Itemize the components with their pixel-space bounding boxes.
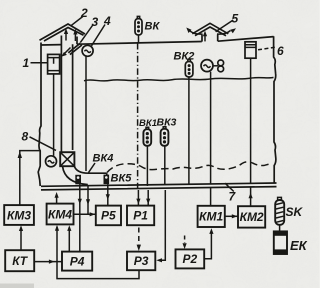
- curl arrow left: [189, 30, 202, 34]
- sensor BK4: [75, 175, 81, 185]
- damper 3: [68, 43, 82, 54]
- KT to P4: [34, 261, 62, 263]
- BK5 wire to P5: [107, 184, 109, 206]
- centerline to P1: [137, 190, 139, 206]
- svg-text:Р3: Р3: [134, 254, 149, 268]
- exhaust fan motor: [201, 60, 213, 72]
- ceiling: [41, 37, 274, 45]
- wall left: [38, 43, 41, 187]
- sensor BK5: [104, 175, 110, 185]
- roof 5: [192, 23, 228, 35]
- box P4: [62, 252, 92, 271]
- svg-text:КМ4: КМ4: [48, 207, 72, 221]
- svg-text:SK: SK: [286, 205, 304, 219]
- svg-text:1: 1: [23, 56, 30, 70]
- box KT: [5, 250, 34, 271]
- duct walls: [61, 36, 77, 152]
- recirc motor: [46, 156, 57, 167]
- svg-text:Р5: Р5: [101, 209, 116, 223]
- svg-text:Р4: Р4: [70, 254, 85, 268]
- up arrow: [204, 34, 206, 42]
- fan box X: [60, 152, 74, 166]
- svg-text:6: 6: [277, 44, 284, 58]
- BK3 wire to P3: [159, 190, 166, 260]
- svg-text:ВК5: ВК5: [111, 173, 133, 185]
- EK heater: [274, 231, 287, 254]
- box KM3: [4, 205, 34, 225]
- svg-text:ЕК: ЕК: [290, 238, 308, 253]
- svg-text:Р2: Р2: [182, 252, 197, 266]
- comp6 wire: [250, 58, 252, 183]
- sensor BK2: [185, 59, 193, 77]
- SK sensor: [275, 197, 284, 224]
- roof 2: [40, 24, 86, 41]
- air up arrow: [74, 32, 76, 41]
- box P2: [176, 249, 205, 268]
- sensor BK: [135, 16, 142, 42]
- svg-text:5: 5: [232, 12, 239, 26]
- dashed arrow to P2: [184, 236, 186, 244]
- P1 to P3 dashed: [138, 228, 140, 247]
- box P3: [127, 252, 155, 271]
- box KM2: [238, 206, 265, 227]
- air up arrow: [65, 32, 67, 41]
- KM1 to KM2: [225, 215, 238, 217]
- comp6 wire to KM2: [250, 187, 252, 206]
- centerline dash-dot: [137, 43, 139, 188]
- fan motor 4: [82, 45, 93, 56]
- KT to KM3: [20, 228, 22, 251]
- heater1 wire: [53, 74, 55, 156]
- scan smudge bottom-left: [0, 284, 34, 288]
- box KM4: [47, 204, 74, 225]
- BK4 wire to P4: [79, 184, 81, 251]
- wavy break line: [84, 77, 274, 81]
- motor5 wire: [210, 72, 212, 184]
- box KM1: [198, 206, 225, 227]
- sensor BK3: [161, 127, 169, 184]
- svg-text:КМ2: КМ2: [240, 210, 264, 224]
- floor: [41, 183, 277, 190]
- bend wire to junction: [87, 186, 89, 214]
- KM4 to P5: [74, 213, 96, 215]
- svg-text:Р1: Р1: [133, 209, 148, 223]
- BK2 wire: [188, 77, 190, 185]
- rail from P3: [57, 227, 139, 279]
- recirc: km3 line: [20, 151, 41, 205]
- svg-text:КМ1: КМ1: [199, 210, 223, 224]
- KM4 to floor arrow: [56, 195, 58, 204]
- shaft walls: [202, 35, 218, 42]
- svg-text:ВК2: ВК2: [174, 51, 195, 63]
- SK-EK link: [279, 225, 281, 232]
- heater 1: [48, 54, 60, 74]
- svg-text:КМ3: КМ3: [7, 208, 31, 222]
- impeller: [213, 65, 218, 67]
- svg-text:ВК: ВК: [145, 21, 161, 33]
- heater 6: [245, 42, 256, 58]
- deflect arrow: [64, 48, 71, 55]
- svg-text:КТ: КТ: [12, 254, 29, 268]
- svg-text:3: 3: [92, 15, 99, 29]
- duct bend: [63, 166, 88, 184]
- dashed wavy line: [107, 162, 272, 173]
- box P1: [127, 206, 154, 226]
- sensor BK1: [143, 127, 151, 186]
- motor5 wire to KM1: [210, 187, 212, 206]
- plinth: [88, 173, 107, 184]
- wall right: [274, 36, 276, 183]
- P4 to KM4: [68, 227, 70, 252]
- P2 to KM1: [204, 232, 211, 259]
- motor4 wire: [85, 56, 87, 171]
- box P5: [96, 206, 121, 226]
- BK1 wire to P1: [147, 190, 149, 206]
- curl arrow right: [217, 31, 231, 35]
- svg-text:ВК4: ВК4: [93, 153, 114, 165]
- svg-text:8: 8: [22, 130, 29, 144]
